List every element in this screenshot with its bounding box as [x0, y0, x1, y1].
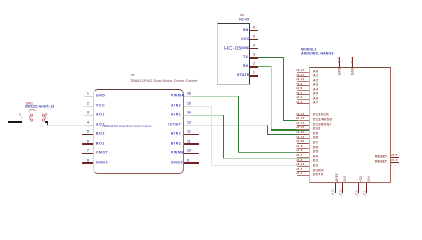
arduino pin D12/MISO: [297, 119, 310, 122]
arduino pin D9: [297, 133, 310, 136]
driver watermark text: [102, 125, 152, 128]
wire to switch pin 1: [8, 121, 22, 122]
driver pin 6 BO1 (left): [82, 143, 93, 144]
arduino bottom pin VIN: [366, 183, 367, 193]
switch pad 4: [45, 117, 46, 120]
arduino pin D5: [297, 151, 310, 154]
driver pin 8 GND2 (left): [82, 162, 93, 163]
arduino top pin GND 2: [352, 57, 353, 67]
arduino pin D6: [297, 147, 310, 150]
HC-05 pin 3 TX: [250, 57, 258, 58]
arduino pin A3: [297, 84, 310, 87]
arduino pin A6: [297, 98, 310, 101]
HC-05 name inside box: [224, 46, 242, 52]
driver pin 7 VMOT (left): [82, 153, 93, 154]
arduino pin A1: [297, 75, 310, 78]
HC-05 pin 5 VCC: [250, 39, 258, 40]
switch SW1 value label: [25, 105, 54, 108]
HC-05 pin 6 EN: [250, 30, 258, 31]
arduino pin D13SCK: [297, 114, 310, 117]
driver pin 5 BO2 (left): [82, 134, 93, 135]
switch SW1 label: [26, 102, 33, 105]
driver U1 refdes: [131, 74, 135, 77]
arduino pin D10: [297, 128, 310, 131]
motor driver U1 box: [93, 89, 184, 174]
arduino bottom pin 3V3: [342, 183, 343, 193]
HC-05 pin 4 GND: [250, 48, 258, 49]
wire from switch pin 3: [45, 121, 49, 122]
driver pin 2 VCC (left): [84, 106, 93, 107]
arduino pin D8: [297, 137, 310, 140]
net wire driver PWMA to arduino D5: [192, 96, 239, 97]
net wire HC-05 TX to arduino D12: [258, 57, 283, 58]
arduino top pin GND 1: [339, 57, 340, 67]
arduino pin A4: [297, 89, 310, 92]
arduino bottom pin +5V: [358, 183, 359, 193]
switch SW1 actuator arc: [28, 108, 36, 112]
driver pin 10 PWMB (right): [184, 153, 200, 154]
driver pin 9 GND3 (right): [184, 162, 200, 163]
switch SW1 contacts: [28, 112, 48, 123]
driver U1 value text: [130, 79, 198, 83]
arduino pin A7: [297, 102, 310, 105]
arduino pin D2: [297, 165, 310, 168]
HC-05 pin 2 RX: [250, 66, 258, 67]
arduino right pin RESET 2: [391, 162, 400, 163]
driver pin 3 AO1 (left): [84, 115, 93, 116]
driver pin 12 BIN1 (right): [184, 134, 200, 135]
HC-05 pin 1 STATE: [250, 75, 258, 76]
switch pad 2: [21, 117, 22, 120]
driver pin 15 AIN2 (right): [184, 106, 192, 107]
arduino pin A2: [297, 80, 310, 83]
switch pin 3 number: [45, 113, 47, 116]
bluetooth module U2 HC-05 box: [217, 23, 250, 86]
arduino refdes MODUL1: [301, 48, 317, 52]
HC-05 U2 refdes: [240, 14, 244, 17]
arduino pin D11MOSI: [297, 124, 310, 127]
HC-05 value label: [239, 18, 249, 22]
driver pin 14 AIN1 (right): [184, 115, 192, 116]
arduino pin D1RX: [297, 170, 310, 173]
arduino pin A0: [297, 71, 310, 74]
net wire driver AIN2 to arduino D2: [192, 106, 212, 107]
arduino pin D7: [297, 142, 310, 145]
arduino pin A5: [297, 93, 310, 96]
driver pin 4 AO2 (left): [84, 125, 93, 126]
net wire driver /STBY to arduino D9: [191, 125, 267, 126]
wire jog down: [47, 121, 48, 125]
arduino pin D3: [297, 160, 310, 163]
driver pin 13 /STBY (right): [184, 125, 192, 126]
wire switch to driver AO2 (faint green): [47, 125, 83, 126]
arduino bottom pin AREF: [335, 183, 336, 193]
switch pin 1 number: [19, 113, 21, 116]
arduino module MODUL1 box: [309, 67, 391, 183]
arduino pin D0TX: [297, 174, 310, 177]
net wire driver AIN1 to arduino D4: [192, 115, 224, 116]
driver pin 16 PWMA (right): [184, 96, 192, 97]
arduino pin D4: [297, 156, 310, 159]
driver pin 1 GND (left): [84, 96, 93, 97]
net wire HC-05 RX to arduino D10: [258, 66, 272, 67]
arduino right pin RESET 1: [391, 157, 400, 158]
driver pin 11 BIN2 (right): [184, 143, 200, 144]
arduino value ARDUINO_NANO3: [301, 52, 333, 56]
